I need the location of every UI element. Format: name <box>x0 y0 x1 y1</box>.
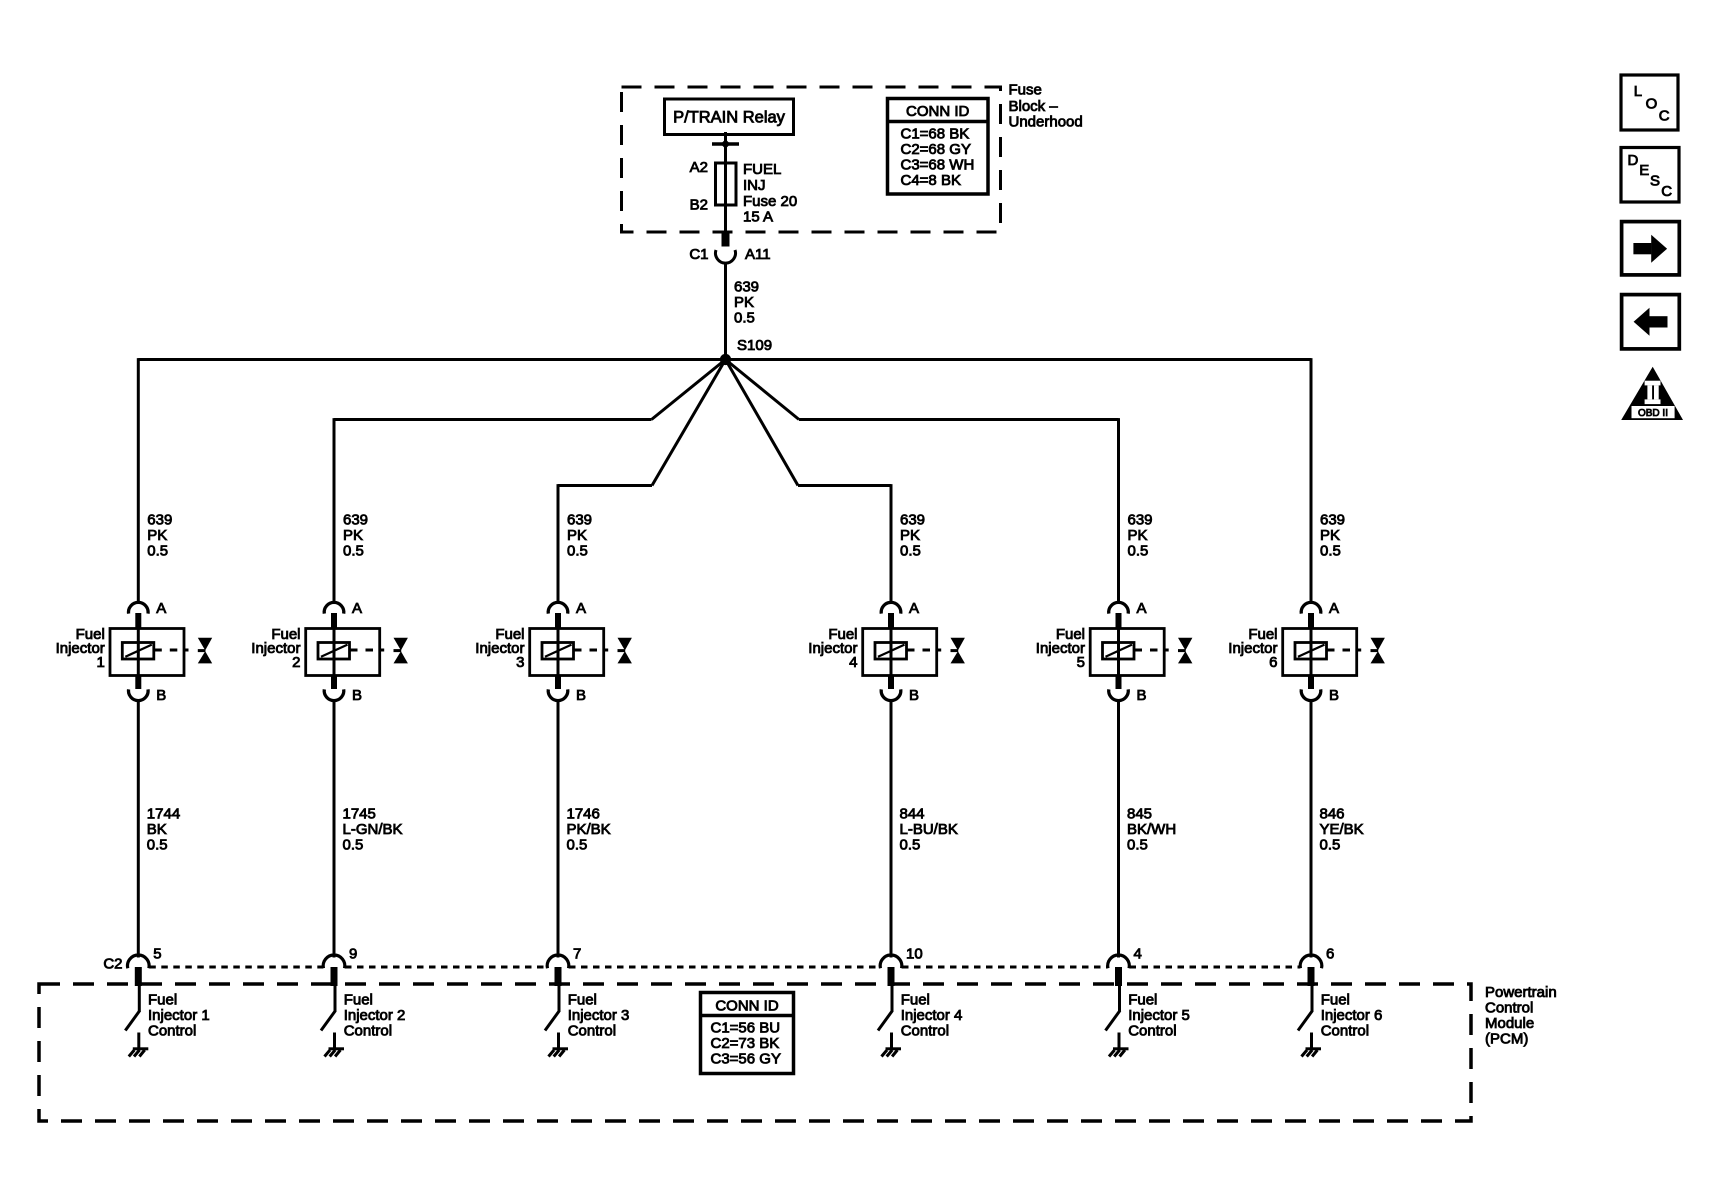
label Fuel Injector 5 <box>1036 626 1085 671</box>
wire label 1746 PK/BK 0.5 <box>567 806 611 854</box>
wire injector 1 to PCM <box>137 700 140 958</box>
svg-text:0.5: 0.5 <box>900 837 921 854</box>
svg-text:Injector 5: Injector 5 <box>1128 1007 1190 1024</box>
svg-text:Fuse: Fuse <box>1009 82 1042 99</box>
wire label 1744 BK 0.5 <box>147 806 180 854</box>
svg-text:C2: C2 <box>103 956 122 973</box>
ground injector 6 driver <box>1302 1033 1322 1057</box>
svg-text:Control: Control <box>1485 1000 1533 1017</box>
pin C1 <box>689 246 708 263</box>
fuel injector 1 symbol (solenoid valve) <box>110 629 212 676</box>
label Fuse Block - Underhood <box>1009 82 1083 131</box>
label Fuel Injector 5 Control <box>1128 992 1190 1040</box>
svg-text:0.5: 0.5 <box>734 310 755 327</box>
wire label 639 PK 0.5 injector 4 <box>900 512 925 560</box>
transistor driver switch injector 2 control <box>321 986 336 1031</box>
svg-text:A2: A2 <box>690 159 708 176</box>
transistor driver switch injector 5 control <box>1106 986 1121 1031</box>
svg-text:PK: PK <box>734 294 754 311</box>
connector pin B injector 1 <box>129 676 149 701</box>
svg-text:Control: Control <box>901 1023 949 1040</box>
wire label 639 PK 0.5 main <box>734 279 759 327</box>
svg-text:C3=68 WH: C3=68 WH <box>901 157 975 174</box>
node relay output junction <box>712 139 739 149</box>
svg-text:B: B <box>156 687 166 704</box>
svg-text:0.5: 0.5 <box>343 543 364 560</box>
fuel injector 5 symbol (solenoid valve) <box>1090 629 1192 676</box>
wire label 639 PK 0.5 injector 6 <box>1320 512 1345 560</box>
pin 7 PCM <box>573 946 581 963</box>
svg-text:B2: B2 <box>690 197 708 214</box>
connector pin B injector 2 <box>324 676 344 701</box>
svg-text:PK: PK <box>1320 527 1340 544</box>
svg-text:844: 844 <box>900 806 925 823</box>
connector pin A injector 2 <box>324 602 344 628</box>
svg-text:Fuel: Fuel <box>568 992 597 1009</box>
label Fuel Injector 3 Control <box>568 992 630 1040</box>
svg-text:6: 6 <box>1269 654 1277 671</box>
wire injector 4 to PCM <box>890 700 893 958</box>
connector pin B injector 3 <box>548 676 568 701</box>
svg-text:L: L <box>1634 83 1642 100</box>
label Fuel Injector 6 Control <box>1321 992 1383 1040</box>
label Fuel Injector 1 Control <box>148 992 210 1040</box>
pin 10 PCM <box>906 946 923 963</box>
pin B label injector 6 <box>1329 687 1339 704</box>
wire label 845 BK/WH 0.5 <box>1127 806 1176 854</box>
pin A label injector 3 <box>576 600 586 617</box>
svg-text:C4=8 BK: C4=8 BK <box>901 172 961 189</box>
pin B label injector 4 <box>909 687 919 704</box>
fuse F20 (FUEL INJ Fuse 20 15 A) <box>716 163 737 232</box>
svg-text:C1=56 BU: C1=56 BU <box>711 1020 781 1037</box>
pin 5 PCM <box>153 946 161 963</box>
svg-text:B: B <box>909 687 919 704</box>
value label FUEL INJ Fuse 20 15 A <box>743 161 797 226</box>
wire diagonal S109 to level3 left <box>652 360 726 486</box>
svg-text:L-BU/BK: L-BU/BK <box>900 821 958 838</box>
pin B label injector 5 <box>1137 687 1147 704</box>
svg-text:C2=68 GY: C2=68 GY <box>901 141 971 158</box>
svg-text:Powertrain: Powertrain <box>1485 984 1557 1001</box>
svg-text:Underhood: Underhood <box>1009 114 1083 131</box>
svg-text:E: E <box>1639 162 1649 179</box>
svg-text:C: C <box>1659 108 1670 125</box>
wire drop injector 3 <box>557 484 560 602</box>
label Fuel Injector 4 Control <box>901 992 963 1040</box>
svg-text:5: 5 <box>153 946 161 963</box>
transistor driver switch injector 4 control <box>878 986 893 1031</box>
svg-text:639: 639 <box>147 512 172 529</box>
svg-text:0.5: 0.5 <box>1320 837 1341 854</box>
label Fuel Injector 4 <box>808 626 857 671</box>
connector pin A injector 4 <box>881 602 901 628</box>
wire label 1745 L-GN/BK 0.5 <box>343 806 403 854</box>
svg-text:A: A <box>1137 600 1147 617</box>
svg-text:D: D <box>1628 152 1639 169</box>
svg-text:A: A <box>156 600 166 617</box>
svg-text:A11: A11 <box>745 246 771 263</box>
splice S109 dot <box>720 354 731 365</box>
svg-text:A: A <box>909 600 919 617</box>
svg-text:0.5: 0.5 <box>1128 543 1149 560</box>
label Fuel Injector 2 <box>251 626 300 671</box>
connector pin B injector 5 <box>1109 676 1129 701</box>
wire bus level1 (injectors 1 and 6) <box>138 358 1311 361</box>
relay K (P/TRAIN Relay) box <box>665 99 794 135</box>
svg-text:0.5: 0.5 <box>343 837 364 854</box>
svg-text:639: 639 <box>900 512 925 529</box>
svg-text:C2=73 BK: C2=73 BK <box>711 1035 780 1052</box>
svg-text:Injector 1: Injector 1 <box>148 1007 210 1024</box>
transistor driver switch injector 6 control <box>1298 986 1313 1031</box>
transistor driver switch injector 3 control <box>545 986 560 1031</box>
connector PCM pin 10 injector 4 <box>880 955 902 986</box>
node dotted connector line PCM <box>149 966 1300 969</box>
pin 6 PCM <box>1326 946 1334 963</box>
wire drop injector 6 <box>1310 358 1313 602</box>
svg-text:PK: PK <box>567 527 587 544</box>
svg-text:C3=56 GY: C3=56 GY <box>711 1051 781 1068</box>
svg-text:639: 639 <box>567 512 592 529</box>
svg-text:846: 846 <box>1320 806 1345 823</box>
svg-text:639: 639 <box>734 279 759 296</box>
label Fuel Injector 2 Control <box>344 992 406 1040</box>
svg-text:2: 2 <box>292 654 300 671</box>
connector PCM pin 4 injector 5 <box>1108 955 1130 986</box>
svg-text:1746: 1746 <box>567 806 600 823</box>
pin 4 PCM <box>1134 946 1142 963</box>
wire drop injector 4 <box>890 484 893 602</box>
pin C2 PCM <box>103 956 122 973</box>
svg-text:C1: C1 <box>689 246 708 263</box>
wire drop injector 2 <box>333 418 336 602</box>
fuel injector 6 symbol (solenoid valve) <box>1283 629 1385 676</box>
label Fuel Injector 3 <box>475 626 524 671</box>
svg-text:B: B <box>576 687 586 704</box>
ground injector 1 driver <box>129 1033 149 1057</box>
pin A label injector 6 <box>1329 600 1339 617</box>
label S109 <box>737 337 772 354</box>
icon arrow left button <box>1622 295 1680 349</box>
wire diagonal S109 to level2 left <box>652 360 726 420</box>
svg-text:845: 845 <box>1127 806 1152 823</box>
svg-text:C: C <box>1661 183 1672 200</box>
pin A label injector 4 <box>909 600 919 617</box>
table CONN ID fuse block <box>901 103 975 189</box>
connector C1 / A11 (in-line, half circle) <box>716 250 736 263</box>
svg-text:639: 639 <box>1320 512 1345 529</box>
svg-text:639: 639 <box>343 512 368 529</box>
svg-text:B: B <box>352 687 362 704</box>
svg-text:0.5: 0.5 <box>1127 837 1148 854</box>
transistor driver switch injector 1 control <box>125 986 140 1031</box>
svg-text:0.5: 0.5 <box>900 543 921 560</box>
svg-text:BK: BK <box>147 821 167 838</box>
svg-text:FUEL: FUEL <box>743 161 781 178</box>
svg-text:1: 1 <box>96 654 104 671</box>
pin A label injector 1 <box>156 600 166 617</box>
ground injector 2 driver <box>325 1033 345 1057</box>
wire label 639 PK 0.5 injector 2 <box>343 512 368 560</box>
wire label 846 YE/BK 0.5 <box>1320 806 1364 854</box>
svg-text:Fuse 20: Fuse 20 <box>743 193 797 210</box>
svg-text:S: S <box>1650 173 1660 190</box>
svg-text:PK: PK <box>343 527 363 544</box>
svg-text:(PCM): (PCM) <box>1485 1031 1528 1048</box>
svg-text:PK: PK <box>1128 527 1148 544</box>
wire relay output <box>724 132 727 164</box>
svg-text:0.5: 0.5 <box>147 543 168 560</box>
pin A11 <box>745 246 771 263</box>
icon LOC button <box>1621 75 1678 130</box>
fuel injector 2 symbol (solenoid valve) <box>306 629 408 676</box>
svg-text:C1=68 BK: C1=68 BK <box>901 126 970 143</box>
label Fuel Injector 1 <box>56 626 105 671</box>
svg-text:4: 4 <box>1134 946 1142 963</box>
wire diagonal S109 to level3 right <box>726 360 799 486</box>
svg-text:9: 9 <box>349 946 357 963</box>
label Powertrain Control Module (PCM) <box>1485 984 1557 1048</box>
svg-text:Control: Control <box>344 1023 392 1040</box>
pin B2 fuse <box>690 197 708 214</box>
ground injector 3 driver <box>549 1033 569 1057</box>
svg-text:L-GN/BK: L-GN/BK <box>343 821 403 838</box>
connector PCM pin 5 injector 1 <box>128 955 150 986</box>
svg-text:Injector 3: Injector 3 <box>568 1007 630 1024</box>
svg-text:Control: Control <box>1321 1023 1369 1040</box>
wire bus level2 right (injector 5) <box>799 418 1119 421</box>
svg-text:1744: 1744 <box>147 806 180 823</box>
wire label 639 PK 0.5 injector 1 <box>147 512 172 560</box>
wire bus level3 right (injector 4) <box>798 484 891 487</box>
svg-text:OBD II: OBD II <box>1638 408 1668 419</box>
table CONN ID fuse block box <box>888 99 989 195</box>
svg-text:10: 10 <box>906 946 923 963</box>
pin A2 fuse <box>690 159 708 176</box>
svg-text:0.5: 0.5 <box>147 837 168 854</box>
svg-text:Fuel: Fuel <box>148 992 177 1009</box>
svg-text:A: A <box>1329 600 1339 617</box>
connector PCM pin 9 injector 2 <box>323 955 345 986</box>
wire fuse to connector C1 stub <box>722 232 730 247</box>
svg-text:1745: 1745 <box>343 806 376 823</box>
svg-text:6: 6 <box>1326 946 1334 963</box>
icon OBD II warning triangle <box>1621 367 1683 420</box>
connector pin A injector 3 <box>548 602 568 628</box>
wire injector 2 to PCM <box>333 700 336 958</box>
svg-text:Fuel: Fuel <box>1128 992 1157 1009</box>
svg-text:Control: Control <box>568 1023 616 1040</box>
PCM module box (Powertrain Control Module, dashed) <box>39 984 1471 1121</box>
svg-text:Injector 6: Injector 6 <box>1321 1007 1383 1024</box>
svg-text:5: 5 <box>1077 654 1085 671</box>
svg-text:15 A: 15 A <box>743 209 773 226</box>
svg-text:Injector 4: Injector 4 <box>901 1007 963 1024</box>
connector pin A injector 6 <box>1301 602 1321 628</box>
svg-text:Fuel: Fuel <box>344 992 373 1009</box>
pin B label injector 2 <box>352 687 362 704</box>
wire bus level3 left (injector 3) <box>558 484 652 487</box>
connector pin A injector 1 <box>129 602 149 628</box>
connector pin B injector 6 <box>1301 676 1321 701</box>
wire diagonal S109 to level2 right <box>726 360 800 420</box>
svg-text:3: 3 <box>516 654 524 671</box>
fuel injector 3 symbol (solenoid valve) <box>530 629 632 676</box>
svg-text:YE/BK: YE/BK <box>1320 821 1364 838</box>
pin B label injector 3 <box>576 687 586 704</box>
svg-text:S109: S109 <box>737 337 772 354</box>
wire drop injector 1 <box>137 358 140 602</box>
svg-text:BK/WH: BK/WH <box>1127 821 1176 838</box>
svg-text:639: 639 <box>1128 512 1153 529</box>
table CONN ID PCM <box>711 998 781 1068</box>
icon arrow right button <box>1622 222 1680 275</box>
ground injector 5 driver <box>1109 1033 1129 1057</box>
pin 9 PCM <box>349 946 357 963</box>
svg-text:A: A <box>576 600 586 617</box>
svg-text:CONN ID: CONN ID <box>906 103 970 120</box>
wire injector 5 to PCM <box>1117 700 1120 958</box>
svg-text:CONN ID: CONN ID <box>715 998 779 1015</box>
fuel injector 4 symbol (solenoid valve) <box>863 629 965 676</box>
connector pin B injector 4 <box>881 676 901 701</box>
label Fuel Injector 6 <box>1228 626 1277 671</box>
icon DESC button <box>1621 148 1679 203</box>
svg-text:B: B <box>1137 687 1147 704</box>
wire drop injector 5 <box>1117 418 1120 602</box>
pin B label injector 1 <box>156 687 166 704</box>
svg-text:Module: Module <box>1485 1015 1534 1032</box>
svg-text:PK/BK: PK/BK <box>567 821 611 838</box>
wire bus level2 left (injector 2) <box>334 418 652 421</box>
svg-text:A: A <box>352 600 362 617</box>
pin A label injector 5 <box>1137 600 1147 617</box>
svg-text:PK: PK <box>147 527 167 544</box>
connector pin A injector 5 <box>1109 602 1129 628</box>
wire 639 PK to splice S109 <box>724 263 727 360</box>
wire label 639 PK 0.5 injector 5 <box>1128 512 1153 560</box>
svg-text:INJ: INJ <box>743 177 766 194</box>
connector PCM pin 7 injector 3 <box>547 955 569 986</box>
svg-text:Fuel: Fuel <box>1321 992 1350 1009</box>
label P/TRAIN Relay <box>673 109 786 127</box>
svg-text:0.5: 0.5 <box>1320 543 1341 560</box>
svg-text:Block –: Block – <box>1009 98 1059 115</box>
svg-text:Control: Control <box>1128 1023 1176 1040</box>
fuse block box (Fuse Block - Underhood, dashed) <box>622 87 1001 232</box>
wire label 639 PK 0.5 injector 3 <box>567 512 592 560</box>
svg-text:7: 7 <box>573 946 581 963</box>
connector PCM pin 6 injector 6 <box>1300 955 1322 986</box>
PCM CONN ID table box <box>701 993 794 1074</box>
svg-text:B: B <box>1329 687 1339 704</box>
wire injector 6 to PCM <box>1310 700 1313 958</box>
svg-text:Fuel: Fuel <box>901 992 930 1009</box>
wire injector 3 to PCM <box>557 700 560 958</box>
svg-text:O: O <box>1646 96 1658 113</box>
svg-text:PK: PK <box>900 527 920 544</box>
svg-text:Control: Control <box>148 1023 196 1040</box>
svg-text:Injector 2: Injector 2 <box>344 1007 406 1024</box>
svg-text:0.5: 0.5 <box>567 543 588 560</box>
svg-text:0.5: 0.5 <box>567 837 588 854</box>
ground injector 4 driver <box>882 1033 902 1057</box>
svg-text:4: 4 <box>849 654 857 671</box>
svg-text:P/TRAIN Relay: P/TRAIN Relay <box>673 109 786 127</box>
wire label 844 L-BU/BK 0.5 <box>900 806 958 854</box>
pin A label injector 2 <box>352 600 362 617</box>
